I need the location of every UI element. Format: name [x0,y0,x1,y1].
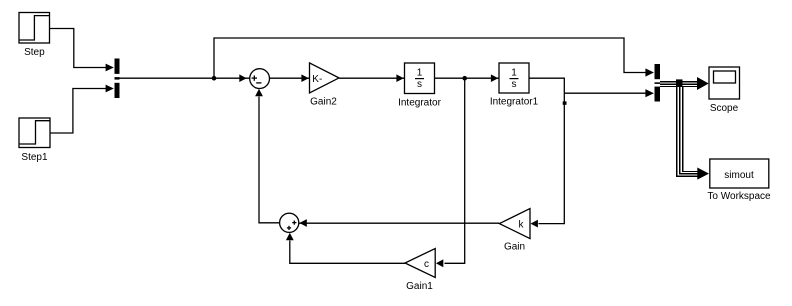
wire Integrator1 down to Gain [529,78,564,227]
svg-text:s: s [417,79,422,90]
step source Step1 [19,118,50,163]
node vector branch junction [676,79,683,86]
wire feedforward top to Mux1 input 1 [214,38,654,78]
vector wire branch to To Workspace [676,87,709,180]
svg-text:Gain: Gain [504,241,525,252]
wire branch to Mux1 input 2 [564,89,654,97]
to workspace block simout [707,159,771,202]
wire Mux to Sum [120,74,250,82]
svg-text:Scope: Scope [710,103,739,114]
wire Gain to Sum1 [299,219,500,227]
svg-text:1: 1 [417,68,423,79]
svg-text:1: 1 [511,68,517,79]
svg-text:Step1: Step1 [21,152,48,163]
wire feedback junction to Gain1 [436,78,465,267]
scope Scope [709,67,740,114]
gain Gain1 [405,249,435,292]
integrator Integrator1 [490,63,539,108]
svg-text:Gain1: Gain1 [406,281,433,292]
sum block Sum [250,69,270,89]
sum block Sum1 [280,213,299,232]
vector wire Mux1 to Scope [660,77,709,90]
wire Sum1 output to Sum bottom input [255,89,280,223]
mux Mux1 [655,64,661,102]
svg-text:s: s [512,79,517,90]
wire Gain1 to Sum1 bottom input [286,233,405,263]
wire Integrator to Integrator1 [435,74,500,82]
wire Step1 to Mux [50,85,114,133]
wire Sum to Gain2 [270,74,310,82]
integrator Integrator [398,63,441,108]
gain Gain [499,209,530,253]
svg-text:Integrator1: Integrator1 [490,97,539,108]
step source Step [19,13,50,59]
mux Mux [115,59,120,99]
wire Step to Mux [50,29,114,72]
node junction after Integrator [462,76,467,81]
gain Gain2 [310,63,340,108]
svg-text:simout: simout [724,170,754,181]
svg-text:To Workspace: To Workspace [707,191,771,202]
svg-text:Integrator: Integrator [398,97,441,108]
svg-text:K-: K- [312,74,322,85]
svg-text:Gain2: Gain2 [310,97,337,108]
wire Gain2 to Integrator [339,74,405,82]
svg-text:c: c [424,259,429,270]
svg-text:Step: Step [24,47,45,58]
node junction after Mux [212,76,217,81]
node junction below Integrator1 branch [563,101,567,104]
